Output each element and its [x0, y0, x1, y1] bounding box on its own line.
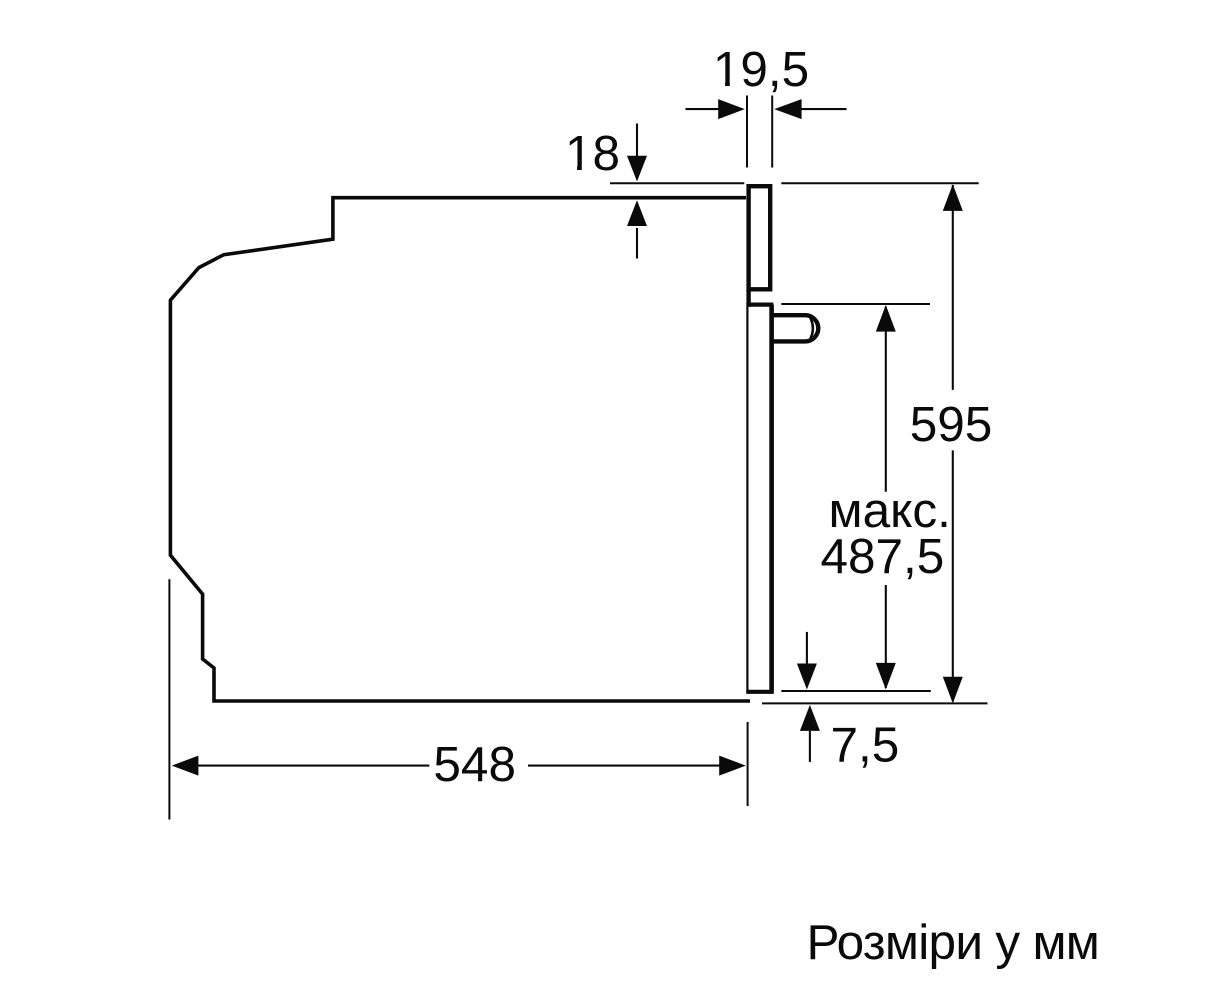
svg-text:548: 548 [433, 737, 516, 792]
548 right extension line [747, 722, 749, 806]
19.5 left arrow [686, 108, 721, 110]
svg-text:7,5: 7,5 [831, 718, 900, 773]
7.5 bottom arrow (up) [809, 731, 811, 762]
548 dimension line [177, 765, 742, 767]
svg-text:19,5: 19,5 [713, 42, 809, 97]
595 dimension line [952, 185, 954, 702]
19.5 right arrow [800, 108, 847, 110]
18 up arrow [636, 228, 638, 259]
19.5 extension line right [771, 96, 773, 168]
handle inner arc [810, 318, 813, 340]
extension line for 487.5 bottom [781, 690, 931, 692]
door lower right thick edge [769, 305, 774, 692]
oven body outline [170, 198, 750, 701]
door upper frame [749, 186, 771, 289]
7.5 top arrow (down) [806, 632, 808, 665]
svg-text:18: 18 [565, 126, 620, 181]
svg-text:Розміри у мм: Розміри у мм [807, 915, 1100, 970]
extension line for 487.5 top [781, 303, 930, 305]
handle [772, 315, 818, 341]
svg-text:595: 595 [910, 397, 993, 452]
top extension line left part [610, 182, 744, 184]
19.5 extension line left [746, 96, 748, 168]
top extension line right part [781, 182, 978, 184]
door lower left thin edge [746, 307, 748, 690]
door left edge upper (frame to step) [746, 289, 750, 307]
door bottom cap [746, 690, 774, 694]
door step line [746, 303, 773, 307]
extension line for 595 bottom / 7.5 [762, 702, 988, 704]
548 left extension line [168, 579, 170, 819]
18 down arrow [636, 124, 638, 159]
svg-text:487,5: 487,5 [820, 529, 944, 584]
487.5 dimension line [885, 307, 887, 689]
